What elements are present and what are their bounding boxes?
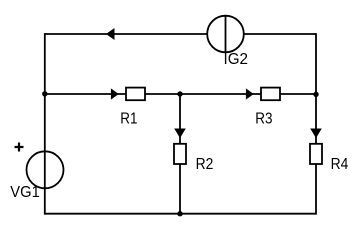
svg-text:R1: R1 [120,111,137,128]
current source IG2 internal bar [225,16,227,53]
junction node right middle (316,94) [313,92,318,97]
current source IG2 circle [207,16,244,53]
arrow on middle wire before R3 (pointing right, tip at (253.7,94)) [246,88,254,99]
svg-text:R4: R4 [331,156,349,173]
resistor R1 body [126,88,145,101]
resistor R2 body [174,144,186,164]
junction node left middle (44.8,94) [42,91,47,96]
voltage source VG1 circle [27,151,64,188]
resistor R4 body [310,144,322,164]
wire bottom (from (44.8,213.7) to (316,213.7)) [45,213,316,215]
resistor R3 body [261,88,280,101]
plus sign of VG1 [15,143,24,152]
arrow on R2 branch (pointing down, tip at (180,137.8)) [174,129,186,139]
wire top (node at (44.8,34) to (316,34)) [45,33,316,35]
wire R2 branch (x=180 from middle wire down to bottom wire) [179,94,181,214]
junction node bottom (180,213.7) [177,211,182,216]
svg-text:R2: R2 [196,156,214,173]
svg-text:R3: R3 [255,111,272,128]
svg-text:IG2: IG2 [224,51,249,68]
arrow on R4 branch (pointing down, tip at (316,137.8)) [310,129,322,139]
wire middle (from (44.8,94) to (316,94)) [45,93,316,95]
junction node middle (180,94) [177,91,182,96]
wire right vertical (x=316 from top to bottom) [315,33,317,215]
wire left vertical (x=44.8 from top to bottom, over VG1 circle) [44,33,46,215]
arrow on top wire (pointing left, tip at (106.5,34)) [106,28,115,40]
arrow on middle wire before R1 (pointing right, tip at (118.7,94)) [111,88,119,99]
svg-text:VG1: VG1 [10,184,40,201]
